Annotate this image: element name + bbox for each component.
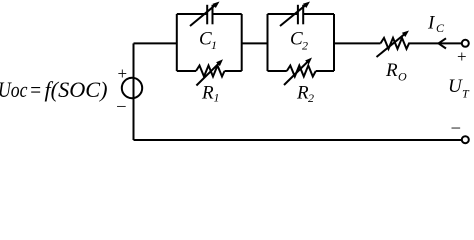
svg-text:Uoc: Uoc: [0, 77, 28, 102]
svg-text:−: −: [451, 118, 462, 138]
svg-text:O: O: [398, 70, 407, 84]
svg-text:1: 1: [211, 38, 217, 52]
svg-text:+: +: [457, 47, 467, 66]
svg-text:I: I: [427, 13, 436, 34]
svg-text:1: 1: [214, 91, 220, 105]
svg-text:−: −: [116, 97, 127, 116]
svg-text:R: R: [385, 60, 398, 81]
svg-text:C: C: [436, 21, 445, 35]
svg-text:=: =: [29, 77, 42, 102]
svg-text:U: U: [448, 76, 463, 97]
svg-text:+: +: [118, 64, 128, 83]
svg-text:T: T: [462, 87, 470, 101]
svg-text:f(SOC): f(SOC): [45, 77, 108, 102]
svg-text:2: 2: [308, 91, 314, 105]
svg-text:R: R: [201, 83, 214, 104]
svg-text:2: 2: [302, 39, 308, 53]
